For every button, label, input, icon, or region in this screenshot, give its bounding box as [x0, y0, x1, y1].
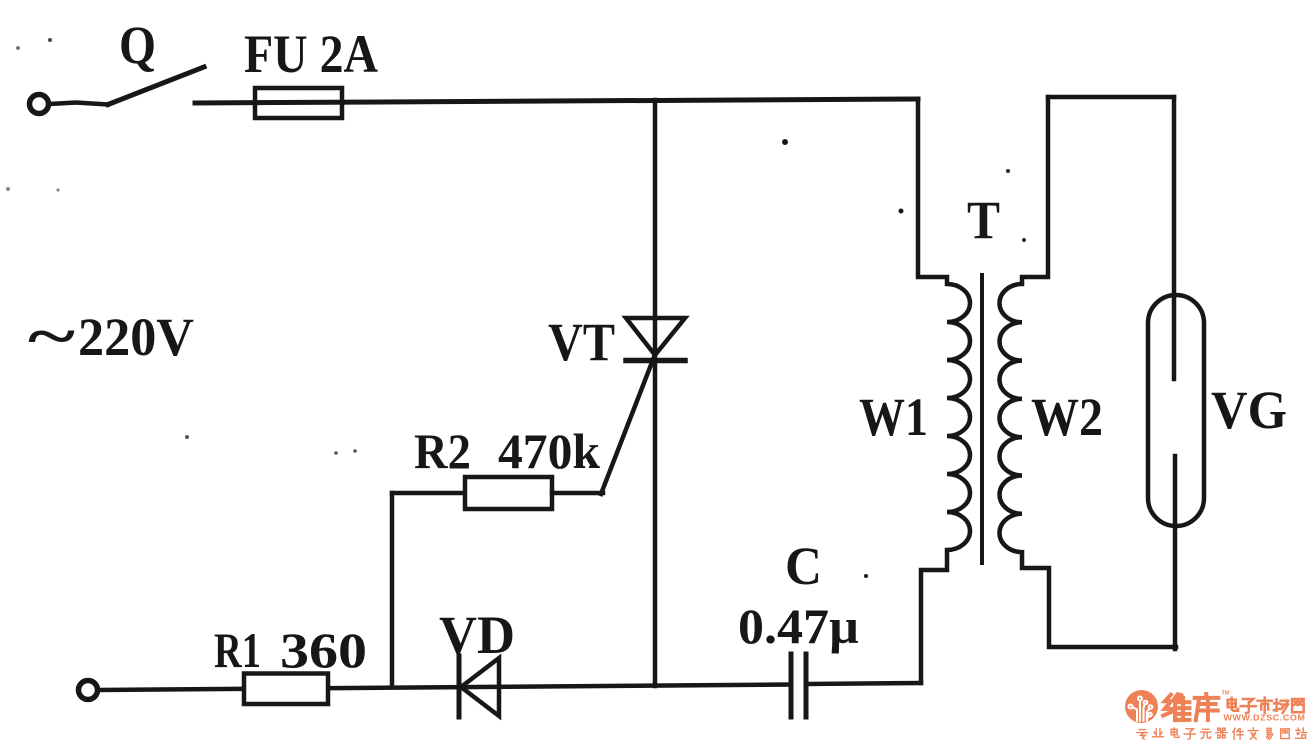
- speck: [48, 38, 52, 42]
- svg-text:Q: Q: [119, 15, 156, 75]
- svg-text:470k: 470k: [498, 423, 600, 479]
- speck: [6, 187, 10, 191]
- watermark slogan 子: [1184, 729, 1195, 739]
- speck: [899, 209, 904, 214]
- speck: [1006, 169, 1010, 173]
- watermark icon circuit tree: [1129, 697, 1153, 722]
- watermark slogan 专: [1137, 730, 1148, 740]
- watermark icon circle: [1125, 690, 1158, 723]
- watermark slogan 件: [1233, 728, 1244, 739]
- resistor R1: [244, 674, 328, 705]
- svg-text:WWW.DZSC.COM: WWW.DZSC.COM: [1224, 713, 1306, 723]
- svg-text:VD: VD: [439, 605, 515, 665]
- watermark slogan 交: [1248, 728, 1258, 740]
- svg-text:W2: W2: [1031, 387, 1103, 447]
- watermark word 电: [1228, 698, 1239, 711]
- svg-text:R1: R1: [214, 622, 261, 678]
- watermark slogan 电: [1171, 728, 1179, 738]
- watermark word 网: [1292, 699, 1304, 712]
- transformer T core: [980, 275, 984, 563]
- speck: [353, 449, 357, 453]
- wire terminal to switch: [49, 103, 108, 105]
- watermark slogan 业: [1153, 729, 1164, 737]
- diode VD triangle: [461, 658, 499, 716]
- diode VD cathode bar: [457, 656, 462, 717]
- svg-text:0.47µ: 0.47µ: [738, 598, 859, 654]
- wire: VT gate: [601, 357, 654, 494]
- svg-text:T: T: [967, 190, 1000, 250]
- wire: top rail right section: [1048, 95, 1174, 100]
- node: left top terminal: [30, 95, 49, 114]
- thyristor VT triangle: [626, 318, 685, 355]
- lamp VG top electrode: [1172, 97, 1177, 379]
- svg-text:360: 360: [280, 622, 367, 678]
- watermark word 子: [1241, 699, 1256, 713]
- lamp VG envelope: [1148, 295, 1204, 526]
- watermark group: [1125, 690, 1307, 739]
- svg-text:W1: W1: [859, 387, 928, 447]
- svg-text:VG: VG: [1211, 380, 1287, 440]
- wire: VT branch vertical: [653, 100, 658, 686]
- resistor R2: [465, 477, 552, 509]
- speck: [334, 451, 338, 455]
- watermark brand name 维: [1163, 694, 1189, 720]
- svg-text:FU 2A: FU 2A: [244, 24, 378, 84]
- speck: [864, 574, 868, 578]
- wire: top rail from switch to transformer W1 corner: [195, 99, 918, 103]
- wire: R2 branch vertical: [390, 493, 395, 687]
- speck: [16, 46, 20, 50]
- watermark brand name 库: [1195, 694, 1219, 720]
- capacitor C right plate: [804, 654, 809, 717]
- fuse FU: [255, 88, 342, 118]
- thyristor VT cathode bar: [626, 358, 685, 364]
- watermark slogan 站: [1296, 728, 1307, 738]
- wire: bottom rail right of capacitor: [806, 683, 921, 684]
- watermark word 场: [1274, 699, 1288, 713]
- watermark slogan 器: [1216, 728, 1227, 738]
- capacitor C left plate: [789, 654, 794, 717]
- switch Q blade: [108, 67, 204, 105]
- speck: [56, 188, 59, 191]
- speck: [185, 435, 189, 439]
- node: left bottom terminal: [79, 681, 98, 700]
- svg-text:R2: R2: [414, 423, 471, 479]
- wire: bottom rail left of capacitor: [98, 685, 790, 691]
- speck: [782, 139, 788, 145]
- wire: R2 right lead: [552, 491, 603, 496]
- svg-text:TM: TM: [1222, 691, 1230, 697]
- wire: R2 left lead: [392, 491, 465, 496]
- watermark slogan 易: [1267, 728, 1273, 739]
- lamp VG bottom electrode: [1173, 456, 1178, 649]
- svg-text:VT: VT: [548, 312, 615, 372]
- speck: [1022, 238, 1026, 242]
- transformer W1 primary winding: [918, 99, 970, 683]
- svg-text:220V: 220V: [78, 307, 194, 367]
- transformer W2 secondary winding: [1000, 97, 1177, 647]
- watermark word 市: [1258, 698, 1272, 713]
- svg-text:~: ~: [28, 303, 75, 369]
- watermark slogan 元: [1200, 729, 1211, 738]
- svg-text:C: C: [785, 536, 822, 596]
- watermark slogan 网: [1281, 729, 1290, 739]
